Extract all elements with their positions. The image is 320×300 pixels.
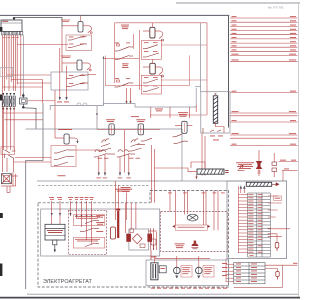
bus wire w3 (230, 25, 298, 27)
left terminal block (0, 67, 13, 76)
EV2 label box (203, 266, 214, 278)
K6 box exit wire (161, 79, 207, 81)
XT1 row feed wires (238, 195, 250, 253)
M1 terminal label (160, 267, 165, 270)
engine label (115, 189, 132, 192)
panel boundary horizontal (26, 128, 182, 130)
K1 contact box (66, 35, 92, 51)
bus wire w6 (230, 37, 298, 39)
M1 top label (151, 256, 157, 259)
K5 contact 2 (143, 53, 159, 57)
R2 right terminal (272, 183, 279, 186)
bus wire w17 (230, 137, 298, 139)
input arrows pair (240, 185, 246, 189)
panel entry arrows (51, 213, 93, 218)
K5 coil feed stub (151, 23, 153, 28)
K2 contact box (51, 72, 88, 90)
terminal strip XT1 grid (248, 193, 271, 257)
cabinet top boundary (37, 180, 287, 182)
stack connector X3 (256, 161, 263, 169)
XT1 row1 side label (274, 196, 282, 200)
arrow terminal a2 (65, 97, 67, 101)
arc contact row B (131, 139, 140, 147)
left small sensor (151, 239, 156, 250)
feeder branch wire (104, 58, 140, 60)
XT1 right exit wires (268, 196, 290, 243)
left contact feeder 2 (14, 161, 52, 163)
voltage regulator module (45, 224, 65, 240)
svg-text:Вн. РЭ 795: Вн. РЭ 795 (268, 6, 284, 10)
horn HA1 (191, 241, 198, 249)
relay K6 coil (150, 63, 156, 74)
wire labels above panel (49, 197, 94, 200)
sensor label box S1 (73, 215, 105, 226)
relay group K4 label (122, 63, 129, 68)
K6 contact 1 (143, 79, 158, 83)
arrow terminal b4 (128, 173, 130, 177)
bus wire w18 (230, 144, 298, 146)
arc contact row A (101, 139, 110, 147)
ground symbol G1 (276, 272, 279, 280)
regulator lower pin box (53, 240, 57, 245)
fuse FU1 (275, 243, 279, 252)
bus wire w8 (230, 45, 298, 47)
bus wire w16 (230, 133, 298, 135)
plug X4 (272, 153, 277, 177)
cable code strip (151, 288, 227, 289)
fan feed pair 2 (185, 191, 188, 215)
generator unit box (146, 260, 229, 286)
K4 contact labels (115, 77, 130, 80)
arrow terminal a1 (59, 97, 61, 101)
K6 contact labels (144, 77, 158, 86)
cable top mark (116, 209, 120, 211)
bus wire w10 (230, 54, 298, 56)
svg-text:ЭЛЕКТРОАГРЕГАТ: ЭЛЕКТРОАГРЕГАТ (43, 279, 93, 285)
glow valve EV1 (174, 267, 181, 278)
genset inner panel box (41, 209, 160, 256)
starter motor M1 (151, 263, 158, 280)
unit feed wires (154, 256, 210, 267)
diode symbol VD1 (238, 165, 245, 171)
battery cable (bold) (117, 211, 119, 238)
control unit box (227, 181, 287, 259)
K1 feed wire lower (17, 44, 68, 46)
exit label right edge (293, 262, 298, 265)
solenoid Y2 label (136, 119, 145, 122)
SA cluster box (1, 147, 14, 155)
bus wire w4 (230, 29, 298, 31)
EV1 label box (181, 266, 192, 278)
center enclosure box E2 (red) (105, 56, 189, 86)
K1 contact 1 (68, 36, 87, 40)
relay contact SA1 (5, 150, 16, 158)
generator box (129, 229, 149, 250)
YA1 hook arrow (76, 141, 78, 144)
solenoid Y2 (138, 124, 143, 135)
frame bottom border (0, 297, 300, 299)
relay K8 coil (182, 121, 187, 133)
K1 coil feed drop (80, 15, 82, 21)
K1 contact 2 (68, 44, 87, 48)
bus wire w12 (230, 91, 298, 93)
fan group dashed box (161, 212, 228, 252)
fan feed pair 1 (170, 191, 175, 226)
K2 wiring (62, 28, 91, 73)
starter cluster wires (116, 181, 127, 220)
charger module box (201, 92, 230, 133)
R1 top terminal (215, 93, 216, 94)
zone marker left margin D (0, 264, 2, 277)
panel boundary vertical right (181, 129, 183, 181)
long vertical boundary wire (22, 35, 24, 93)
generator feed wires (125, 203, 135, 233)
fuel solenoid YA1 (64, 134, 69, 144)
bus wire w5 (230, 33, 298, 35)
arrow terminal labels (97, 177, 132, 180)
K3 contact labels (115, 42, 130, 45)
K8 contact 1 (173, 134, 183, 137)
relay contact SA2 (8, 155, 13, 162)
regulator ground arrow (54, 245, 56, 253)
K8 side wires (175, 124, 192, 126)
zone marker left margin A (0, 27, 2, 32)
contact row killswitch P1 (94, 150, 115, 157)
fuel solenoid label (58, 129, 72, 130)
module feed stub (195, 86, 201, 88)
K5 contact box (141, 41, 161, 60)
genset enclosure (dashed) (38, 191, 229, 288)
bus wire w13 (230, 111, 298, 113)
SB feed wires (60, 48, 67, 97)
zone marker left margin B (0, 95, 2, 101)
generator diamond (132, 234, 142, 244)
bus wire w7 (230, 41, 298, 43)
K5 box exit wire (161, 44, 207, 46)
K6 wiring hook (143, 67, 164, 77)
regulator label (47, 230, 63, 233)
enclosure box E1 (red) (115, 23, 207, 115)
right label column (222, 263, 227, 276)
dashed area labels (96, 215, 104, 232)
starter solenoid YA2 (111, 227, 116, 239)
generator small terminals (130, 229, 145, 248)
left contact feeder 1 (15, 157, 51, 159)
M1 terminal box (159, 266, 166, 273)
K5 contact labels (144, 42, 158, 52)
fan feed pair 3 (203, 191, 206, 226)
relay group K3 label (121, 25, 129, 30)
K4 contact (115, 80, 134, 87)
K6 contact 2 (143, 88, 159, 92)
red bus mid-left (74, 149, 101, 151)
K8 inner stripe (183, 123, 185, 133)
XT1 cell labels (250, 194, 263, 256)
arrow terminal b3 (119, 173, 121, 177)
node dot on A1 top (13, 17, 15, 19)
bus wire w9 (230, 50, 298, 52)
injection pump wires (148, 228, 157, 250)
boundary wire bumps (77, 103, 87, 105)
contact cluster SA3 box (51, 146, 76, 167)
R3 left feed wire (155, 168, 198, 172)
fan left arrow (172, 225, 175, 228)
wires below contactor (3, 107, 43, 151)
K9 side wires (1, 172, 18, 193)
wire bus y130 (97, 129, 160, 131)
fan wire labels (168, 192, 225, 195)
R3 right terminal marks (225, 170, 228, 173)
solenoid Y1 label (106, 119, 115, 122)
relay group K1 label (61, 20, 70, 22)
wire bundle from A1 pins (3, 35, 21, 172)
relay group K2 label (61, 56, 71, 58)
K1 wiring (62, 26, 92, 34)
center drop wire (123, 130, 125, 173)
K1 contact labels (69, 37, 85, 45)
drop wire d2 (169, 107, 171, 118)
fan feed single (214, 191, 218, 231)
generator output wire (150, 250, 152, 260)
ballast resistor R1 (hatched) (213, 96, 217, 124)
aux box side wire (28, 100, 56, 102)
K5 contact 1 (143, 45, 158, 49)
frame right border (298, 3, 300, 297)
auxiliary box near KM1 (20, 93, 37, 129)
Y1 inner stripe (111, 125, 113, 134)
drop wires to cabinet (99, 154, 129, 173)
drop wire d1 (150, 107, 152, 118)
pin wire number labels (3, 36, 19, 39)
R1 bottom wire (216, 123, 225, 133)
sensor label box S3 (73, 238, 105, 249)
terminal labels (57, 101, 69, 104)
arc row labels (98, 157, 141, 160)
brush contact right (147, 234, 152, 242)
wires to lower left cluster (7, 158, 14, 172)
Y2 inner stripe (140, 125, 142, 134)
relay K2 coil (77, 60, 82, 70)
panel top boundary (50, 104, 103, 111)
bottom connecting wire (234, 265, 283, 287)
fan label box (175, 225, 207, 230)
stop label (58, 174, 66, 177)
heater bar R2 (hatched) (246, 182, 271, 186)
X3 tail wire (258, 150, 261, 176)
XT2 feed wires (226, 259, 234, 283)
module output labels (210, 136, 223, 141)
relay K9 box with cross (1, 174, 11, 184)
bus wire w2 (230, 20, 298, 22)
center gray enclosure (103, 88, 196, 107)
XT1 feed bus (237, 186, 239, 253)
starter feed pair (152, 145, 155, 203)
bus wire w15 (230, 120, 298, 122)
sheet edge top right (176, 2, 300, 4)
panel feed wires (52, 201, 92, 244)
solenoid Y1 (109, 124, 114, 135)
fan right arrow (208, 225, 211, 228)
lower contact row A (99, 148, 112, 151)
connector block A1 (1, 20, 22, 32)
sensor group box (dashed) (68, 211, 106, 255)
genset upper dashed boundary (38, 185, 150, 187)
fuel pump label (175, 243, 185, 248)
glow valve EV2 (196, 267, 203, 278)
riser to bus (282, 170, 284, 181)
YA1 wires and hook (55, 138, 78, 142)
relay K1 coil (78, 22, 83, 33)
wire from node to relay column (14, 18, 62, 28)
bus wire w1 (230, 16, 298, 18)
K3 contact (115, 44, 134, 51)
connector A1 pin row (2, 32, 23, 35)
right distribution bus (228, 16, 230, 128)
arrow on gray feeder (103, 56, 105, 59)
starter relay label (121, 187, 131, 192)
lower table XT2 (234, 263, 265, 284)
arrow terminal b2 (104, 173, 106, 177)
shunt resistor R3 (hatched) (197, 169, 224, 174)
K6 contact box (141, 75, 161, 94)
wire to edge e1 (278, 160, 297, 162)
relay K7 label (131, 115, 139, 118)
SA3 contact 2 (54, 156, 74, 160)
R3 lower arrow (195, 174, 197, 179)
K8 contact 2 (174, 141, 189, 144)
K2 contact 2 (66, 83, 88, 87)
arrow terminal b1 (98, 173, 100, 177)
contactor KM1 poles (2, 96, 15, 107)
mains wires pair (196, 105, 205, 173)
SA3 contact 1 (54, 150, 74, 154)
drop pair from K4 (127, 88, 131, 101)
contact row killswitch P2 (117, 150, 135, 157)
frame top border (0, 14, 229, 16)
bus wire w11 (230, 60, 298, 62)
K6 coil feed stub (151, 59, 153, 63)
connector A1 label (2, 21, 8, 22)
contactor KM1 terminal dots (2, 93, 15, 110)
remote control label (236, 162, 254, 169)
R3 bridge jog (191, 162, 205, 168)
module lower contacts (203, 128, 221, 133)
K5 wiring hook (143, 31, 164, 41)
gray drop to module (200, 23, 202, 92)
wire to edge e2 (282, 169, 298, 171)
drop wire d3 (188, 107, 190, 118)
K2 contact labels (69, 75, 85, 84)
contact row G upper second (115, 56, 133, 60)
box D feeder stub (88, 74, 96, 76)
gray feeder line with arrow (103, 57, 105, 106)
K7 contact (137, 138, 152, 144)
sensor contact S2 (80, 228, 99, 232)
zone marker left margin C (0, 213, 3, 218)
bus wire w14 (230, 115, 298, 117)
XT2 cell labels (236, 264, 257, 282)
relay K5 coil (150, 27, 155, 38)
K2 contact 1 (66, 75, 88, 79)
K4 drop arrows (125, 101, 131, 104)
mains arrow terminals (201, 173, 206, 176)
input arrow wires (241, 189, 245, 193)
KC labels (155, 109, 163, 112)
fan motor symbol (187, 214, 198, 221)
SA3 contact 3 (54, 162, 68, 166)
wire feeders to relay box K-left (3, 75, 56, 138)
panel bottom rail (27, 293, 298, 295)
relay K8 label (178, 112, 188, 117)
XT2 right exits (265, 265, 298, 271)
brush contact left (126, 234, 131, 242)
lower contact row B (129, 148, 142, 151)
